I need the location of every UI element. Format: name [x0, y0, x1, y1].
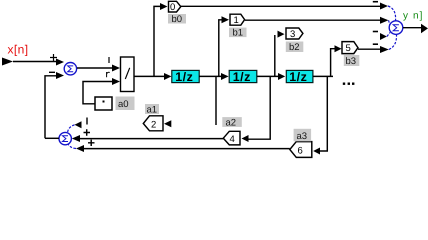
sign - port3: [373, 31, 378, 33]
svg-text:b3: b3: [346, 56, 357, 67]
wire branch down toward a1 (truncated): [215, 76, 217, 125]
svg-text:1/z: 1/z: [233, 70, 251, 84]
sign - port4: [373, 43, 378, 45]
svg-text:b1: b1: [233, 28, 244, 39]
label b2: [286, 42, 304, 53]
gain b2: [286, 28, 303, 39]
wire branch down to a3: [319, 76, 327, 151]
wire branch up to gain b1: [219, 20, 222, 77]
sign | port1 of S3: [86, 118, 88, 125]
constant a0 block: [95, 97, 112, 110]
wire branch up to gain b2: [274, 35, 276, 76]
gain a3 (flipped): [290, 142, 312, 158]
wire feedback into S1 minus: [45, 76, 56, 139]
sum S3 (feedback summer, flipped): [59, 132, 71, 144]
input port In1: [2, 58, 13, 66]
svg-text:3: 3: [290, 29, 295, 40]
wire D1 out to D2: [199, 75, 221, 77]
wire branch up to gain b3: [331, 49, 335, 77]
svg-text:a2: a2: [226, 117, 237, 128]
gain b0: [169, 1, 181, 12]
svg-text:0: 0: [170, 2, 175, 13]
svg-text:1: 1: [234, 15, 239, 26]
wire branch up to gain b0: [154, 6, 160, 76]
sign + of S1: [50, 54, 57, 61]
svg-text:5: 5: [346, 43, 351, 54]
wire b0 to output sum port 1: [181, 5, 380, 7]
label b1: [229, 28, 247, 37]
label a1: [145, 104, 159, 114]
wire b1 to output sum port 2: [245, 19, 380, 21]
svg-text:a0: a0: [118, 99, 129, 110]
gain b1: [230, 14, 245, 25]
svg-text:6: 6: [298, 146, 303, 157]
svg-text:1/z: 1/z: [289, 70, 307, 84]
spokes of S2: [388, 6, 396, 21]
svg-text:2: 2: [151, 120, 156, 131]
label b0: [168, 14, 186, 24]
sign + port3 of S3: [88, 140, 95, 146]
sign + port2 of S3: [84, 129, 91, 135]
label a2: [222, 117, 242, 127]
gain a2 (flipped): [223, 131, 240, 145]
delay 1/z D2: [229, 70, 257, 82]
svg-text:a1: a1: [147, 104, 158, 115]
sum S1 (input summer): [64, 62, 76, 74]
sign - of S1: [49, 71, 55, 73]
label a3: [294, 129, 312, 142]
wire divide output to delay1 with branch to b0: [134, 75, 165, 77]
gain b3: [342, 42, 358, 54]
svg-text:x[n]: x[n]: [8, 43, 29, 57]
wire a2 to sum S3 port2: [80, 138, 223, 140]
arrow into a1 (wire not drawn in source): [164, 120, 171, 127]
svg-text:b2: b2: [289, 42, 300, 53]
svg-text:4: 4: [230, 134, 235, 145]
sign - port1: [373, 1, 378, 3]
wire x[n] to sum S1: [13, 61, 56, 63]
wire D2 out to D3: [257, 75, 278, 77]
svg-text:1/z: 1/z: [175, 70, 193, 84]
svg-text:a3: a3: [297, 131, 308, 142]
port label divide sign: [107, 72, 110, 77]
svg-text:y n]: y n]: [403, 10, 424, 21]
spokes of S3: [68, 125, 75, 133]
wire S3 output to left (joins feedback riser): [45, 137, 59, 139]
label b3: [344, 55, 360, 66]
wire a3 to sum S3 port3: [84, 148, 290, 150]
output port Out1: [421, 24, 428, 33]
arrow S3 port1 (wire from a1 not drawn in source): [75, 121, 82, 128]
port 3 arrow of output sum (wire not drawn in source): [380, 33, 387, 40]
label a0: [116, 97, 135, 111]
sum S2 (output summer): [389, 21, 403, 35]
ellipsis continuation dots: [343, 83, 345, 85]
wire branch down to a2: [248, 76, 271, 139]
delay 1/z D1: [172, 70, 199, 82]
gain a1 (flipped): [143, 116, 163, 131]
port label x of divide: [108, 57, 110, 63]
wire a0 to divide lower input: [83, 82, 112, 104]
wire S1 output to divide: [77, 67, 112, 69]
delay 1/z D3: [286, 70, 313, 82]
wire D3 out to chain end: [313, 75, 333, 77]
divide block U1: [121, 57, 135, 92]
wire S2 to output port: [403, 27, 421, 29]
wire b3 to output sum port 4: [358, 48, 380, 50]
svg-text:b0: b0: [172, 14, 183, 25]
